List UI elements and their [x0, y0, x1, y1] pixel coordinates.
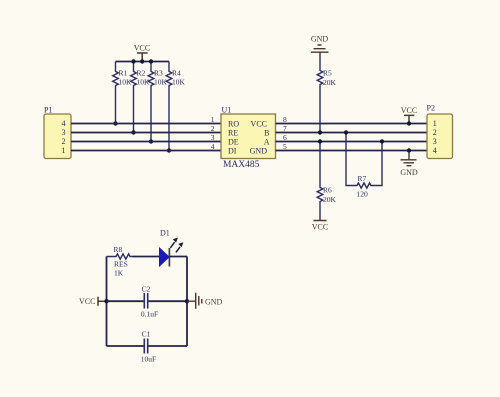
wire VCC rail over R1-R4	[116, 61, 170, 63]
wire P1.2 to U1 pin3 DE	[71, 141, 221, 143]
svg-text:D1: D1	[160, 228, 170, 237]
wire R8 to LED D1	[133, 256, 160, 258]
svg-text:3: 3	[62, 128, 66, 137]
wire P1.3 to U1 pin2 RE	[71, 132, 221, 134]
resistor R3 10K	[148, 62, 167, 142]
svg-text:MAX485: MAX485	[223, 160, 260, 170]
junction R4 bottom on wire 4	[167, 148, 171, 152]
resistor R2 10K	[131, 62, 150, 133]
svg-text:10K: 10K	[119, 78, 133, 87]
IC U1 MAX485	[221, 105, 276, 170]
resistor R7 120 (termination between B and A)	[346, 133, 382, 199]
svg-text:C2: C2	[142, 284, 151, 293]
svg-text:3: 3	[433, 137, 437, 146]
svg-text:RO: RO	[228, 120, 239, 129]
svg-text:1: 1	[211, 115, 215, 124]
capacitor C2 0.1uF	[107, 284, 188, 318]
connector P2	[427, 104, 453, 159]
svg-text:2: 2	[433, 128, 437, 137]
svg-text:R8: R8	[114, 245, 123, 254]
svg-text:20K: 20K	[323, 78, 337, 87]
svg-text:P1: P1	[44, 106, 52, 115]
LED D1	[160, 228, 184, 266]
svg-text:R5: R5	[323, 69, 332, 78]
svg-text:RES: RES	[114, 260, 128, 269]
svg-text:R3: R3	[154, 69, 163, 78]
svg-text:VCC: VCC	[401, 106, 417, 115]
svg-text:GND: GND	[400, 168, 418, 177]
svg-text:P2: P2	[427, 104, 435, 113]
wire right branch of LED loop	[186, 257, 188, 347]
svg-text:GND: GND	[250, 147, 268, 156]
wire U1 A(6) to P2.3	[276, 141, 428, 143]
junction R2 top on VCC rail	[131, 59, 135, 63]
svg-text:DE: DE	[228, 138, 239, 147]
svg-text:2: 2	[62, 137, 66, 146]
svg-text:10K: 10K	[154, 78, 168, 87]
power port VCC (below R6)	[312, 221, 328, 232]
junction GND on wire P2.4	[407, 148, 411, 152]
svg-text:0.1uF: 0.1uF	[141, 310, 158, 319]
svg-text:RE: RE	[228, 129, 238, 138]
wire U1 B(7) to P2.2	[276, 132, 428, 134]
svg-text:10uF: 10uF	[141, 354, 156, 363]
junction R3 bottom on wire 3	[149, 139, 153, 143]
resistor R5 20K	[317, 52, 336, 132]
svg-text:2: 2	[211, 124, 215, 133]
resistor R6 20K	[317, 142, 336, 221]
junction R1 bottom on wire 1	[113, 121, 117, 125]
svg-text:1: 1	[62, 146, 66, 155]
svg-text:VCC: VCC	[79, 297, 95, 306]
svg-text:VCC: VCC	[251, 120, 267, 129]
svg-text:4: 4	[211, 142, 215, 151]
wire left branch of LED loop	[106, 257, 108, 347]
power port GND (near P2)	[400, 151, 418, 178]
svg-text:U1: U1	[222, 105, 232, 114]
svg-text:R4: R4	[172, 69, 181, 78]
svg-text:GND: GND	[205, 297, 223, 306]
junction R3 top on VCC rail	[149, 59, 153, 63]
svg-text:4: 4	[62, 119, 66, 128]
svg-text:B: B	[264, 129, 269, 138]
junction VCC wire on left branch	[104, 299, 108, 303]
svg-text:R1: R1	[119, 69, 128, 78]
junction R7 right on wire A	[380, 139, 384, 143]
junction C2 wire on right branch	[185, 299, 189, 303]
svg-text:R7: R7	[358, 174, 367, 183]
wire U1 GND(5) to P2.4	[276, 150, 428, 152]
svg-text:VCC: VCC	[134, 44, 150, 53]
svg-text:120: 120	[357, 190, 369, 199]
resistor R4 10K	[166, 62, 185, 151]
power port VCC (bottom-left)	[79, 297, 106, 306]
svg-text:3: 3	[211, 133, 215, 142]
junction R6 on wire A	[318, 139, 322, 143]
wire P1.4 to U1 pin1 RO	[71, 123, 221, 125]
svg-text:10K: 10K	[137, 78, 151, 87]
svg-text:A: A	[264, 138, 270, 147]
junction VCC stem on rail	[140, 59, 144, 63]
svg-text:R6: R6	[323, 186, 332, 195]
junction R7 left on wire B	[344, 130, 348, 134]
svg-text:1: 1	[433, 119, 437, 128]
svg-text:R2: R2	[137, 69, 146, 78]
svg-text:DI: DI	[228, 147, 237, 156]
wire LED cathode to right corner	[169, 256, 187, 258]
svg-text:20K: 20K	[323, 195, 337, 204]
junction VCC on wire P2.1	[407, 121, 411, 125]
junction R5 on wire B	[318, 130, 322, 134]
svg-text:GND: GND	[311, 35, 329, 44]
wire P1.1 to U1 pin4 DI	[71, 150, 221, 152]
svg-text:10K: 10K	[172, 78, 186, 87]
connector P1	[44, 106, 71, 159]
svg-text:4: 4	[433, 146, 437, 155]
svg-text:VCC: VCC	[312, 223, 328, 232]
resistor R1 10K	[113, 62, 132, 124]
power port GND (top, above R5)	[311, 35, 329, 53]
power port GND (bottom, right of C2)	[187, 293, 223, 309]
resistor R8 1K RES	[107, 245, 133, 278]
svg-text:C1: C1	[142, 329, 151, 338]
junction R2 bottom on wire 2	[131, 130, 135, 134]
wire U1 VCC(8) to P2.1	[276, 123, 428, 125]
power port VCC (near P2)	[401, 106, 417, 124]
power port VCC (top, above R1-R4)	[134, 44, 150, 62]
svg-text:1K: 1K	[114, 269, 124, 278]
capacitor C1 10uF	[107, 329, 188, 363]
